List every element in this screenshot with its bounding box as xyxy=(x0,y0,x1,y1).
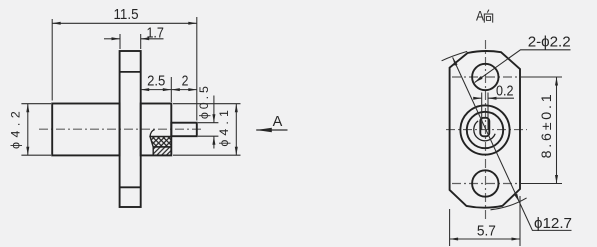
flange outline xyxy=(450,51,520,208)
svg-text:A: A xyxy=(273,114,283,130)
flange side xyxy=(120,51,141,207)
bottom hole centerline xyxy=(452,183,520,185)
cylinder phi4.2 xyxy=(52,104,119,156)
svg-text:ϕ12.7: ϕ12.7 xyxy=(534,215,572,232)
dimension 8.6+-0.1 xyxy=(556,77,558,184)
dimension phi4.2 xyxy=(21,104,51,156)
svg-text:11.5: 11.5 xyxy=(114,6,139,23)
dimension 0.2 xyxy=(474,93,515,131)
svg-text:2.5: 2.5 xyxy=(147,73,165,90)
dimension 5.7 xyxy=(450,196,520,246)
main centerline horizontal xyxy=(446,129,527,131)
svg-text:8.6±0.1: 8.6±0.1 xyxy=(539,94,555,158)
dimension 1.7 xyxy=(104,34,164,49)
view arrow A xyxy=(256,129,287,131)
svg-text:0.2: 0.2 xyxy=(496,83,514,100)
leader phi12.7 xyxy=(453,57,572,230)
svg-text:2-ϕ2.2: 2-ϕ2.2 xyxy=(528,34,571,51)
body phi4.1 xyxy=(141,104,172,156)
vertical centerline xyxy=(485,40,487,221)
dimension 2.5 xyxy=(141,77,172,102)
bottom mounting hole xyxy=(472,170,498,196)
svg-text:5.7: 5.7 xyxy=(477,222,496,239)
thin arc top-left xyxy=(442,51,468,60)
top mounting hole xyxy=(472,64,498,90)
hook curve xyxy=(150,130,154,137)
svg-text:ϕ4.2: ϕ4.2 xyxy=(9,111,23,149)
pin phi0.5 xyxy=(171,123,197,137)
svg-text:ϕ0.5: ϕ0.5 xyxy=(197,86,211,119)
dimension 11.5 xyxy=(52,17,197,121)
dimension phi4.1 xyxy=(173,104,241,156)
insulator cross-hatch xyxy=(150,137,171,147)
dimension 2 xyxy=(171,89,197,91)
svg-text:2: 2 xyxy=(182,73,189,90)
centerline side view xyxy=(39,128,203,130)
thin arc bottom-right xyxy=(491,198,527,210)
flange chamfer line bottom xyxy=(120,186,141,188)
slot xyxy=(480,118,489,137)
partial arc xyxy=(474,121,495,141)
dimension phi0.5 xyxy=(198,96,218,149)
label xiang glyph xyxy=(484,10,492,23)
leader 2-phi2.2 xyxy=(475,50,571,83)
middle circle xyxy=(467,112,503,148)
svg-text:A: A xyxy=(476,9,484,24)
svg-text:ϕ4.1: ϕ4.1 xyxy=(217,110,231,147)
flange chamfer line top xyxy=(120,71,141,73)
outer circle xyxy=(460,105,509,154)
svg-text:1.7: 1.7 xyxy=(146,25,164,42)
metal diagonal hatch xyxy=(153,147,171,155)
top hole centerline xyxy=(452,76,520,78)
